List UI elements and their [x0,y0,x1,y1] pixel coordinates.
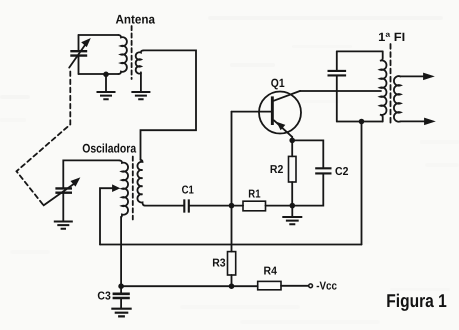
wire oscillator secondary bottom to C1 [145,205,184,207]
wire R3 bottom [231,275,233,286]
wire antenna secondary to oscillator secondary [141,50,197,159]
resistor R4 [258,281,281,289]
svg-text:Figura 1: Figura 1 [386,290,447,311]
dashed gang link (tuning) [17,72,71,206]
node junction R2/C2/R1 ground [290,203,296,209]
wire R1 right to ground node [266,205,293,207]
svg-text:1ª FI: 1ª FI [378,30,405,44]
wire FI tank bottom [337,121,383,123]
wire FI output bottom with arrow [400,120,427,122]
wire R1 left [232,205,244,207]
ground (antenna secondary) [131,72,150,99]
svg-text:-Vcc: -Vcc [316,281,337,293]
svg-text:R2: R2 [270,164,283,176]
wire emitter to C2 [292,140,323,167]
inductor L2 secondary (antenna coil) [136,50,144,73]
wire C1 to base node [190,205,232,207]
wire antenna tank top [79,34,119,36]
wire C2 bottom to ground node [292,174,323,205]
svg-text:R4: R4 [264,266,278,278]
node junction base divider [229,203,235,209]
ground (C3) [111,309,131,317]
resistor R1 [243,201,266,211]
svg-text:C1: C1 [182,185,195,197]
node junction emitter [289,138,295,144]
resistor R2 [289,156,297,182]
variable capacitor CV2 (oscillator) [44,178,80,205]
core (FI transformer dashed) [390,44,392,126]
core (antenna transformer dashed) [131,26,133,79]
wire base vertical [231,112,233,252]
svg-text:Q1: Q1 [271,76,285,90]
variable capacitor CV1 (antenna) [69,39,90,68]
capacitor C1 [184,199,189,212]
wire collector to FI tap [300,90,381,92]
wire oscillator cap bottom to ground [62,194,64,221]
svg-text:Osciladora: Osciladora [82,142,137,156]
inductor L1 primary (antenna coil) [118,35,127,74]
resistor R3 [228,252,236,275]
node junction C3 / rail [118,283,124,289]
wire base horizontal to Q1 [232,111,271,113]
svg-text:C2: C2 [335,166,348,178]
wire R2 to ground node [291,182,293,206]
wire antenna tank left (to variable capacitor) [78,35,80,74]
inductor L5 primary (FI coil) [380,51,386,121]
wire FI cap stems [336,51,338,121]
svg-text:Antena: Antena [116,13,156,27]
wire emitter to R2 [291,140,293,156]
inductor L4 secondary (oscillator coil) [137,160,144,206]
wire FI output top with arrow [400,75,426,77]
wire oscillator primary bottom down [120,217,122,286]
inductor L6 secondary (FI coil) [394,76,400,122]
wire FI bottom vertical [361,122,363,245]
wire antenna tank bottom [79,73,119,75]
node junction antenna tank / ground [103,72,109,78]
terminal -Vcc [309,284,313,288]
capacitor C2 [315,168,331,173]
capacitor C3 [113,294,130,298]
svg-text:R1: R1 [248,189,261,201]
wire FI tank top [337,50,383,52]
svg-text:C3: C3 [97,291,110,303]
svg-text:R3: R3 [212,257,225,269]
capacitor C4 (FI tank) [328,71,347,76]
tap arrowhead [113,185,120,191]
wire oscillator cap top to primary [63,160,119,187]
wire mid rail (oscillator tap to FI bottom) [100,244,362,246]
inductor L3 primary (oscillator coil) [119,160,128,217]
ground (antenna tank) [97,74,116,99]
node junction FI tank bottom [359,119,365,125]
core (oscillator transformer dashed) [132,157,134,220]
wire C3 stems [120,286,122,308]
wire R4 to -Vcc terminal [281,285,308,287]
transistor Q1 [259,91,301,140]
node junction R3 / rail [229,283,235,289]
oscillator tap wire with arrow [100,188,114,244]
ground (emitter network) [282,206,302,225]
ground (oscillator capacitor) [54,222,73,229]
wire bottom rail [121,285,258,287]
